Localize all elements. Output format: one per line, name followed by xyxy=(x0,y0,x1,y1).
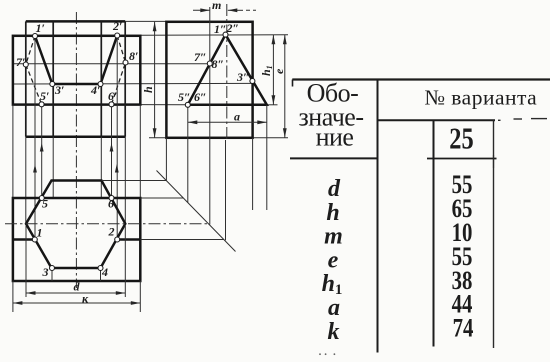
svg-text:e: e xyxy=(272,68,286,74)
svg-text:8″: 8″ xyxy=(212,57,225,71)
svg-text:h: h xyxy=(326,200,339,226)
svg-text:3′: 3′ xyxy=(54,83,64,97)
svg-text:3″: 3″ xyxy=(236,70,250,84)
svg-text:74: 74 xyxy=(453,315,474,344)
svg-text:ние: ние xyxy=(316,122,354,151)
svg-text:5′: 5′ xyxy=(40,89,49,103)
svg-text:5″: 5″ xyxy=(178,90,191,104)
svg-text:4: 4 xyxy=(101,265,108,279)
svg-text:h: h xyxy=(141,86,155,93)
svg-text:7′: 7′ xyxy=(16,55,25,69)
svg-text:8′: 8′ xyxy=(129,49,138,63)
svg-text:m: m xyxy=(212,0,221,12)
svg-text:m: m xyxy=(324,224,343,250)
svg-text:a: a xyxy=(328,295,340,321)
svg-text:2: 2 xyxy=(108,225,115,239)
svg-text:1′: 1′ xyxy=(36,21,45,35)
svg-text:a: a xyxy=(234,110,240,124)
svg-text:k: k xyxy=(328,319,340,345)
svg-text:2′: 2′ xyxy=(112,19,122,33)
svg-text:к: к xyxy=(82,292,89,306)
svg-text:e: e xyxy=(328,247,339,273)
svg-text:6′: 6′ xyxy=(108,89,117,103)
svg-text:№ варианта: № варианта xyxy=(424,85,537,109)
svg-text:3: 3 xyxy=(42,265,49,279)
svg-text:6″: 6″ xyxy=(194,90,207,104)
svg-text:4′: 4′ xyxy=(90,83,100,97)
svg-text:5: 5 xyxy=(42,197,48,211)
svg-text:6: 6 xyxy=(108,197,114,211)
svg-text:25: 25 xyxy=(449,121,473,155)
svg-text:7″: 7″ xyxy=(194,50,207,64)
svg-text:2″: 2″ xyxy=(226,21,240,35)
svg-text:1″: 1″ xyxy=(214,22,227,36)
svg-text:d: d xyxy=(74,280,81,294)
svg-text:d: d xyxy=(328,176,341,202)
svg-text:1: 1 xyxy=(37,226,43,240)
